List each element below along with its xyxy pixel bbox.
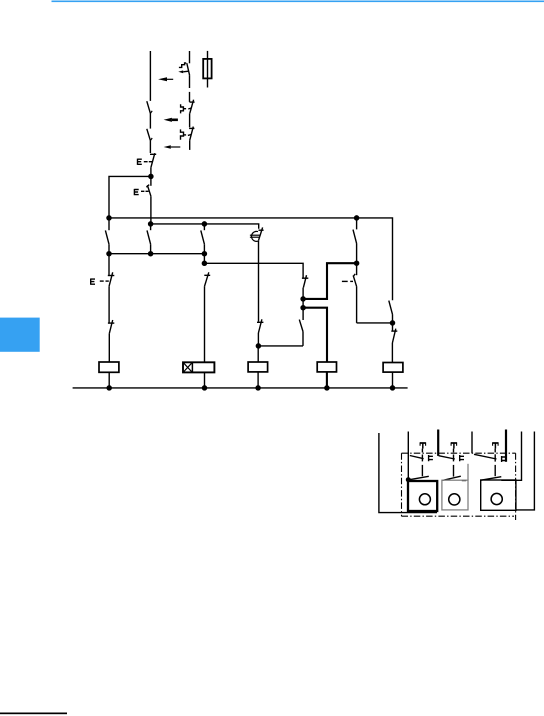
wire [392, 372, 394, 388]
wire [204, 372, 206, 388]
wire [189, 140, 191, 150]
node: junction at branch [148, 174, 154, 180]
wire [149, 141, 151, 153]
latched coil K2 cross [184, 363, 192, 371]
thermal contact 3 [474, 454, 506, 462]
thermistor sensor T1 [420, 442, 426, 448]
wire v6 [501, 432, 521, 481]
bus line 2 [151, 224, 259, 229]
wire cross link [357, 322, 393, 324]
wire [150, 168, 152, 177]
node on bus2 [148, 221, 154, 227]
wire [149, 113, 151, 128]
node [406, 477, 411, 482]
actuation arrow 2 (bold) [164, 118, 178, 122]
wire: release column [258, 240, 260, 321]
actuation dashes E1 [144, 161, 153, 163]
wire [356, 287, 358, 323]
wire: incoming line L1 [149, 51, 151, 101]
actuation arrow 3 [164, 145, 181, 148]
thermistor sensor T2 [451, 442, 457, 448]
node rail K1 [106, 385, 112, 391]
emphasized wire v5 [505, 430, 507, 462]
lamp circle 1 [419, 494, 430, 505]
contact (NO) with linkage, column E [353, 263, 357, 287]
label E3 [91, 279, 95, 285]
aux contact 2 right lead [462, 480, 466, 482]
node [256, 343, 262, 349]
wire link row [258, 345, 303, 347]
label E1 [138, 159, 142, 165]
circuit-breaker pole 1 trip arrow [178, 70, 188, 73]
node rail K5 [390, 385, 396, 391]
node [300, 305, 306, 311]
wire [108, 244, 110, 254]
contact (NC) right column lower [391, 323, 397, 343]
aux contact 3 blade (NO) [481, 477, 501, 481]
bottom rail [73, 387, 408, 389]
wire row4 [204, 263, 303, 278]
contactor coil K5 [383, 363, 403, 373]
contact column C stub [203, 224, 205, 230]
contact (NO) column E top stub [356, 218, 358, 230]
circuit-breaker pole 2 top bar [190, 101, 195, 103]
contact (NC) on release column [257, 319, 263, 333]
T3 stub [494, 449, 496, 453]
circuit-breaker pole 3 blade [190, 127, 194, 141]
circuit-breaker pole 3 latch symbol [181, 129, 192, 139]
node rail K3 [255, 385, 261, 391]
wire [421, 465, 423, 476]
contact C blade (NO) [201, 230, 205, 244]
thermistor sensor T3 [493, 442, 499, 448]
emergency-stop contact E2 (blade+tick) [146, 185, 151, 197]
contact B blade (NO) [147, 230, 151, 244]
wire: breaker column top [189, 51, 191, 63]
linkage dashes [342, 280, 353, 282]
actuation arrow 1 [158, 77, 173, 81]
contact (NC) top of column D [302, 275, 308, 287]
wire [391, 343, 393, 363]
node row4 C [202, 261, 208, 267]
node [300, 296, 306, 302]
contact column B stub [150, 224, 152, 230]
node [354, 260, 360, 266]
emphasized wire lower jog [303, 308, 327, 362]
wire [494, 465, 496, 476]
wire between nodes [302, 299, 304, 308]
contactor coil K1 [99, 362, 119, 372]
wire [392, 314, 394, 323]
page top rule (blue) [52, 1, 544, 3]
release device (thermal release) contact [259, 227, 264, 240]
emergency-stop contact E1 (NC) [150, 153, 156, 167]
release device circle with chords [250, 231, 260, 241]
wire [453, 465, 455, 477]
wire [108, 334, 110, 362]
wire: E2 to bus2 [150, 196, 152, 224]
circuit-breaker pole 1 blade [187, 63, 190, 75]
wire [356, 243, 358, 263]
switch pole 1 blade [147, 101, 152, 113]
node row3 C [202, 251, 208, 257]
node on bus1 [106, 215, 112, 221]
auxiliary contact A2 (NC) [108, 320, 114, 334]
starter box 3 [481, 480, 516, 510]
contact blade (NO) column E [353, 230, 357, 244]
contact column A stub [108, 218, 110, 230]
wire: left branch to bus [109, 176, 151, 218]
wire [257, 346, 259, 362]
wire [326, 372, 328, 388]
switch pole 2 blade [147, 129, 152, 141]
wire [189, 75, 191, 88]
wire (dashed gap segment) [189, 92, 191, 102]
wire [150, 244, 152, 254]
contact (NO) lower column D [299, 308, 303, 332]
aux contact 2 blade (NO) [442, 476, 461, 480]
wire [108, 372, 110, 388]
latched coil K2 body [183, 362, 214, 372]
circuit-breaker pole 3 top bar [189, 127, 194, 129]
latched coil K2 partition [191, 362, 193, 372]
node row3 B [148, 251, 154, 257]
wire v2 [407, 432, 409, 482]
fuse F1 body [203, 59, 211, 79]
contactor coil K4 [317, 362, 336, 372]
node row3 A [106, 251, 112, 257]
wire [189, 113, 191, 127]
actuation dashes E2 [141, 190, 149, 192]
wire [302, 288, 304, 299]
thermal contact 1 [410, 455, 433, 462]
emergency-stop contact E3 (NC) [108, 254, 115, 287]
aux contact 1 blade (NO) [409, 476, 429, 480]
contact blade (NO) right column [389, 301, 393, 315]
footer rule [0, 713, 67, 715]
T1 stub [421, 449, 423, 453]
node on bus2 [202, 221, 208, 227]
starter box 1 [408, 481, 437, 511]
contact C2 (NC) on column C [204, 272, 210, 286]
wire [257, 372, 259, 388]
node rail K2 [202, 385, 208, 391]
wire row3 [109, 253, 204, 255]
thermal contact 2 [439, 455, 464, 462]
dash-dot enclosure left/top [402, 453, 516, 520]
thumb-index tab (blue) [0, 318, 40, 352]
emergency-stop contact E2 stub [150, 176, 152, 185]
fuse F1 lead [207, 51, 209, 88]
wire v1 [379, 433, 437, 513]
node rail K4 [324, 385, 330, 391]
contact A blade (NO) [105, 230, 109, 244]
wire [203, 244, 205, 263]
lamp circle 2 [449, 494, 460, 505]
node on bus1 [354, 215, 360, 221]
node [390, 320, 396, 326]
circuit-breaker pole 2 blade [190, 100, 194, 114]
emphasized wire v3 [437, 430, 439, 456]
wire [302, 332, 304, 346]
wire [257, 333, 259, 346]
label E2 [134, 189, 138, 195]
T2 stub [453, 449, 455, 453]
circuit-breaker pole 2 latch symbol [181, 104, 192, 113]
circuit-breaker pole 1 latch symbol [179, 63, 186, 67]
wire [108, 286, 110, 323]
starter box 2 (grey) [442, 464, 468, 510]
bus line 1 [109, 218, 393, 300]
contactor coil K3 [248, 362, 268, 372]
wire v4 [471, 432, 473, 454]
wire [204, 286, 206, 362]
emphasized wire upper jog [303, 263, 357, 299]
wire v7 [516, 432, 535, 510]
actuation dashes E3 [100, 280, 109, 282]
lamp circle 3 [491, 493, 502, 504]
